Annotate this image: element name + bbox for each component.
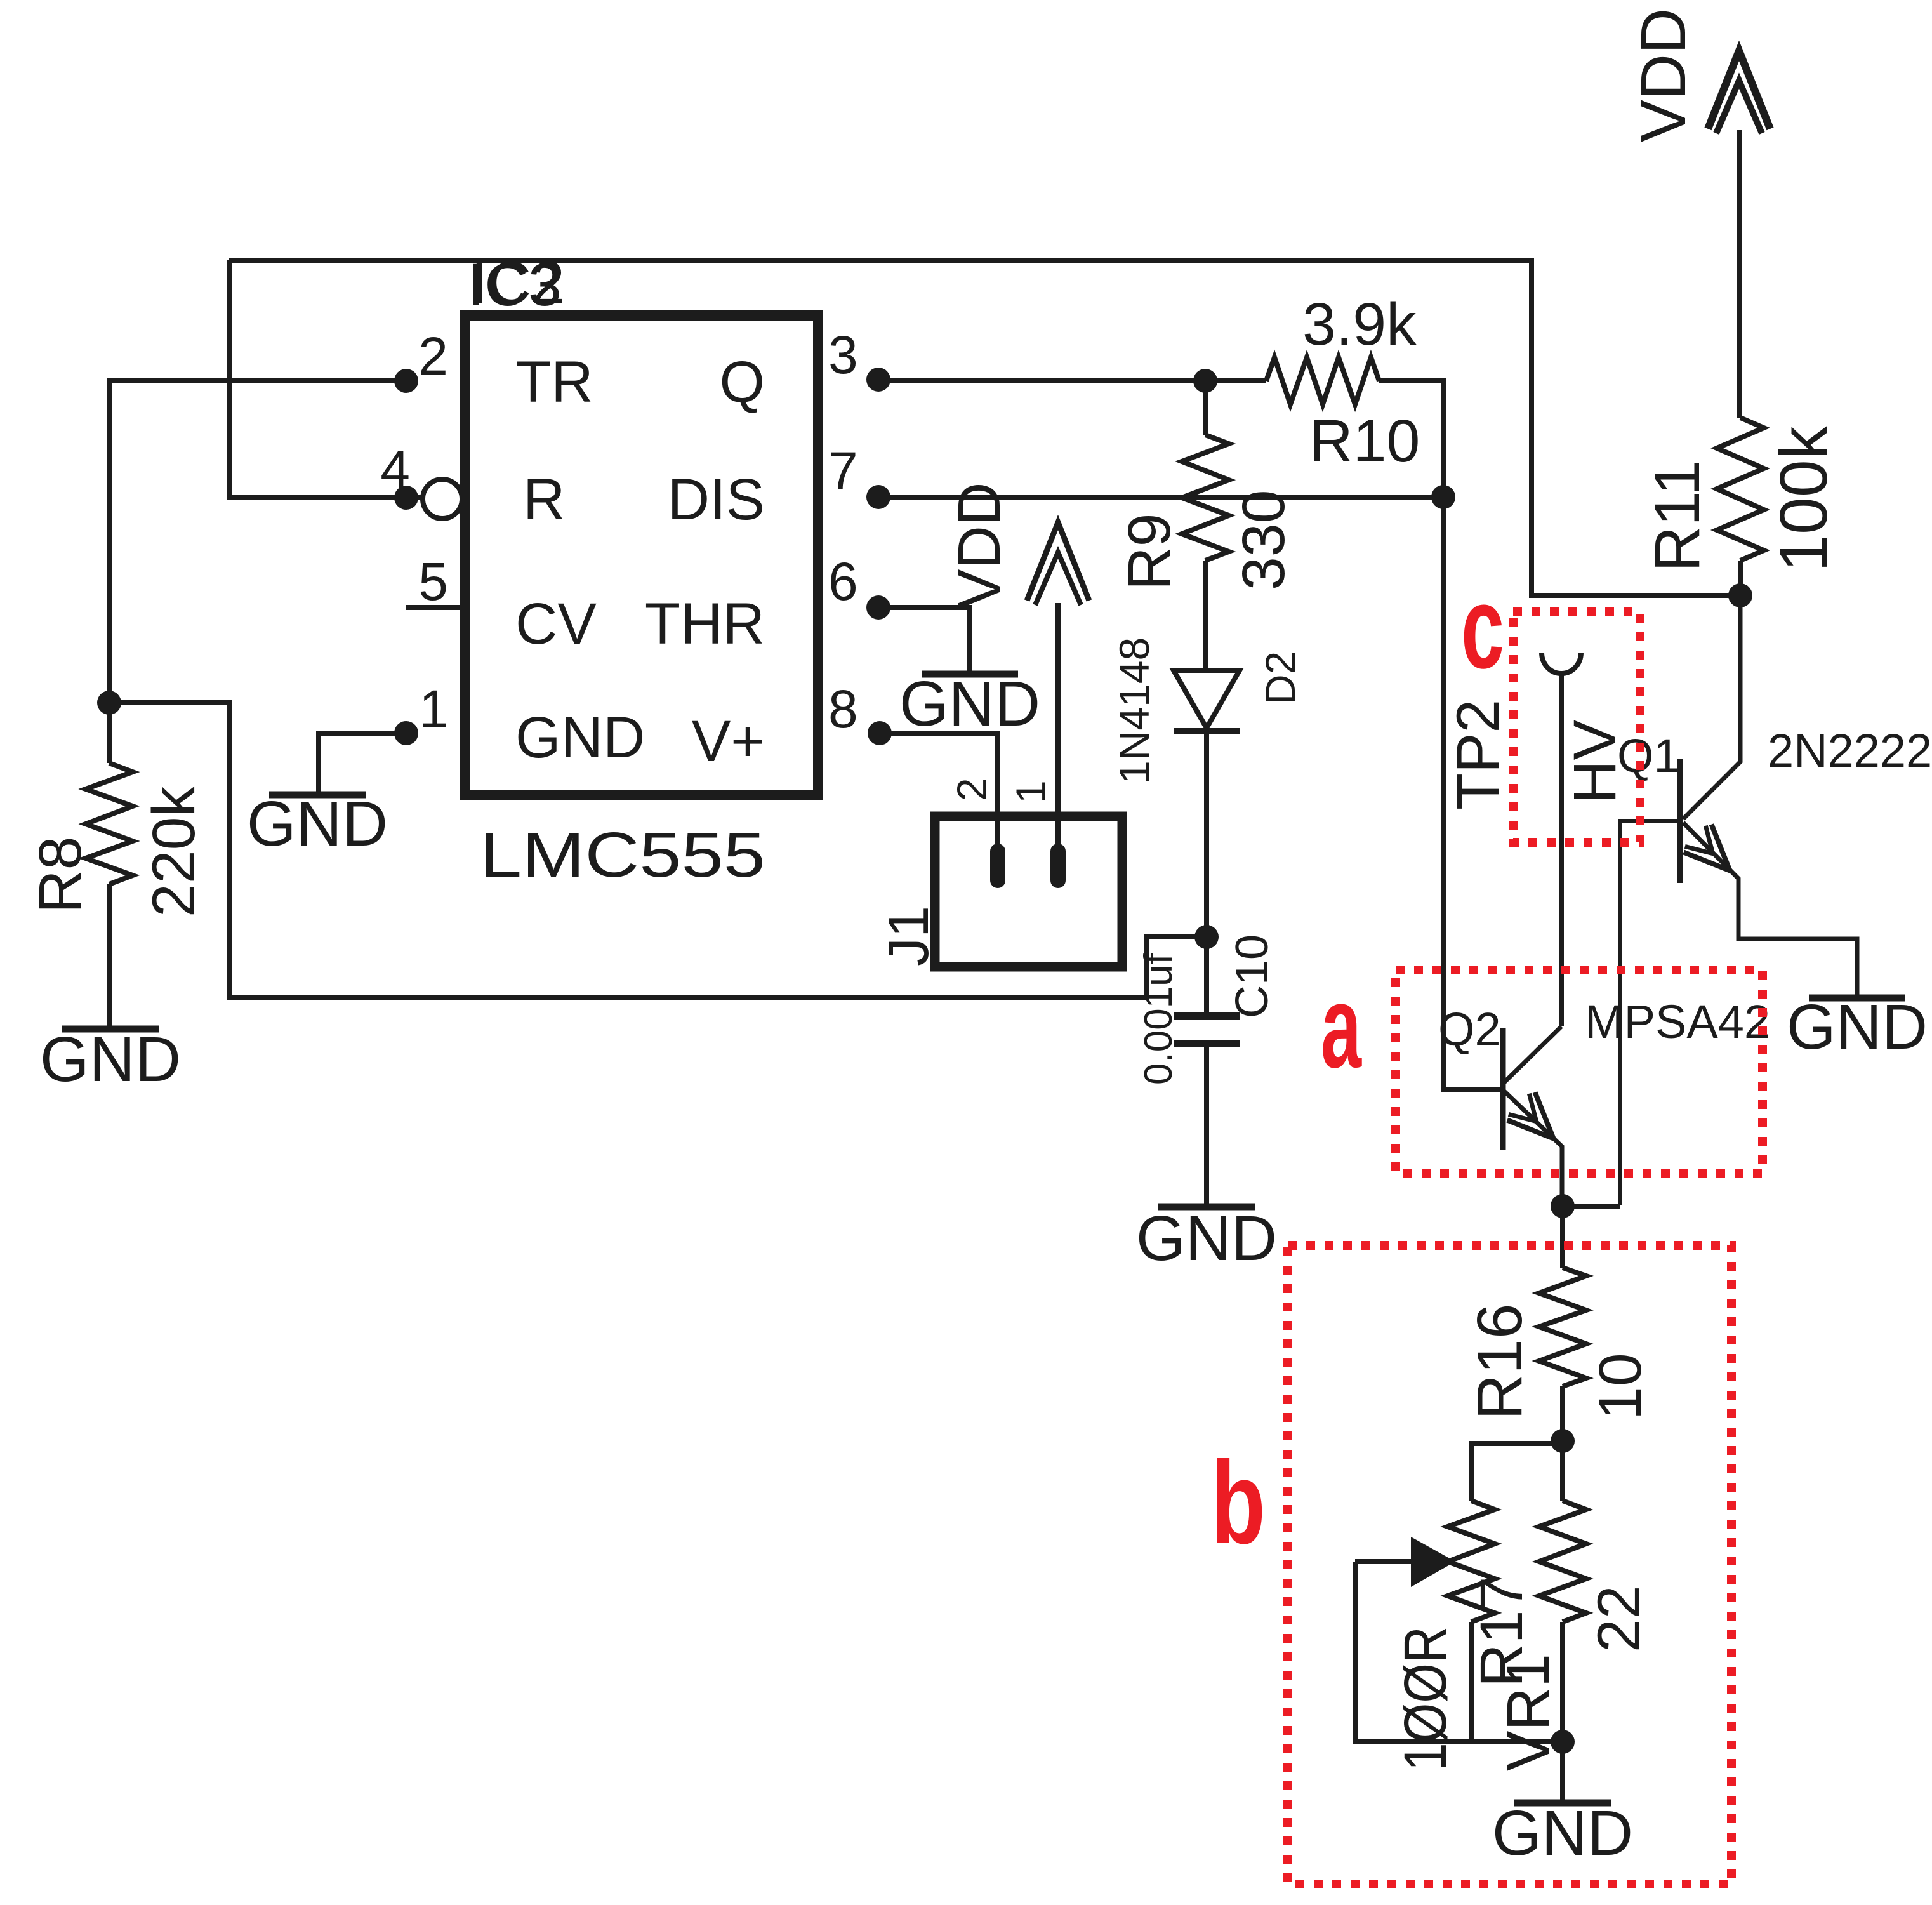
svg-text:LMC555: LMC555 (480, 820, 765, 891)
capacitor C10 0.001uf (1204, 937, 1209, 1013)
svg-text:R: R (523, 467, 565, 532)
transistor Q2 MPSA42 (1503, 1026, 1561, 1084)
VR1 wiper arrow (1355, 1559, 1411, 1564)
svg-text:220k: 220k (140, 786, 208, 917)
resistor R10 3.9k (1266, 357, 1379, 404)
wire pin6 THR to ground (877, 607, 970, 672)
svg-text:VDD: VDD (946, 482, 1013, 609)
node R11 bottom / Q1 collector (1728, 583, 1752, 607)
ground at Q1 emitter (1809, 995, 1905, 1002)
wire pin7 DIS (877, 495, 1443, 500)
ground below R8 (62, 1026, 159, 1033)
annotation box a (1396, 970, 1763, 1173)
svg-text:1: 1 (419, 679, 449, 739)
svg-text:TP2: TP2 (1445, 700, 1512, 810)
svg-text:7: 7 (828, 441, 858, 501)
svg-text:2N2222: 2N2222 (1768, 724, 1932, 777)
wire pin4 R reset (229, 260, 423, 498)
test point TP2 hook (1542, 653, 1581, 674)
svg-text:GND: GND (515, 705, 645, 770)
resistor R9 330 (1203, 381, 1208, 435)
resistor R17 22 (1560, 1441, 1565, 1501)
wire top net: pin4/R to R11 bottom node (229, 260, 1740, 595)
svg-text:IC2: IC2 (471, 249, 565, 317)
node bottom of divider (1551, 1730, 1575, 1754)
svg-text:V+: V+ (692, 709, 765, 774)
svg-text:0.001uf: 0.001uf (1137, 953, 1181, 1085)
IC IC2/IC3 LMC555 timer body (465, 315, 818, 795)
svg-text:c: c (1461, 562, 1504, 693)
wire pin3 Q output (877, 378, 1266, 383)
svg-text:Q2: Q2 (1438, 1003, 1501, 1056)
svg-text:3: 3 (828, 325, 858, 385)
svg-text:TR: TR (515, 350, 593, 415)
svg-text:b: b (1211, 1438, 1266, 1569)
svg-text:GND: GND (1136, 1203, 1277, 1274)
ground at pin6 (922, 671, 1018, 678)
svg-text:VR1: VR1 (1495, 1654, 1562, 1771)
resistor R16 10 (1560, 1206, 1565, 1268)
ground below C10 (1158, 1204, 1255, 1211)
resistor R11 100k (1717, 418, 1764, 561)
svg-text:C10: C10 (1227, 934, 1278, 1018)
svg-text:100k: 100k (1766, 425, 1841, 572)
svg-text:10: 10 (1587, 1353, 1654, 1420)
svg-text:GND: GND (40, 1024, 181, 1095)
wire R10 right to DIS node and down to Q2 base (1379, 381, 1503, 1089)
wire R8 node to C10/D2 node (bottom long wire) (109, 703, 1207, 998)
svg-text:GND: GND (899, 668, 1040, 740)
pin 4 bubble (423, 479, 462, 519)
svg-text:DIS: DIS (668, 467, 765, 532)
svg-text:6: 6 (828, 552, 858, 611)
annotation box b (1288, 1245, 1731, 1884)
trimmer VR1 100R (1471, 1444, 1563, 1501)
svg-text:R11: R11 (1642, 460, 1713, 572)
svg-text:R8: R8 (27, 837, 94, 913)
svg-text:R16: R16 (1464, 1304, 1535, 1420)
svg-text:2: 2 (418, 326, 448, 386)
svg-text:22: 22 (1585, 1585, 1653, 1652)
svg-text:CV: CV (515, 592, 597, 656)
svg-text:GND: GND (1787, 992, 1928, 1063)
svg-text:GND: GND (247, 788, 388, 860)
svg-text:8: 8 (828, 679, 858, 739)
svg-text:R9: R9 (1116, 514, 1183, 590)
transistor Q1 2N2222 (1683, 595, 1740, 819)
power VDD arrow at J1 (1027, 522, 1089, 601)
svg-text:Q: Q (719, 350, 765, 415)
svg-text:1: 1 (1007, 780, 1054, 804)
pin 5 stub (CV, n.c.) (406, 605, 465, 610)
svg-text:a: a (1321, 962, 1362, 1092)
svg-text:HV: HV (1561, 720, 1629, 804)
resistor R8 220k (107, 703, 112, 763)
svg-text:330: 330 (1230, 489, 1297, 590)
svg-text:MPSA42: MPSA42 (1585, 995, 1770, 1048)
power VDD arrow top right (1708, 51, 1770, 129)
wire pin2 TR to R8 top (109, 381, 406, 703)
svg-text:THR: THR (645, 592, 765, 656)
wire pin1 GND stub (319, 733, 406, 793)
ground near pin1 (269, 792, 366, 799)
svg-text:5: 5 (418, 552, 448, 611)
svg-text:3.9k: 3.9k (1302, 291, 1417, 358)
diode D2 1N4148 (1174, 670, 1240, 728)
svg-text:R10: R10 (1309, 408, 1420, 475)
annotation box c (1513, 612, 1640, 842)
node R16/R17/VR1 top (1551, 1429, 1575, 1453)
svg-text:J1: J1 (877, 906, 941, 966)
svg-text:2: 2 (948, 778, 995, 801)
svg-text:1ØØR: 1ØØR (1392, 1626, 1459, 1771)
svg-text:1N4148: 1N4148 (1111, 637, 1158, 784)
svg-text:D2: D2 (1257, 651, 1304, 705)
ground in box b (1514, 1800, 1611, 1807)
wire VDD to R11 (1737, 130, 1742, 418)
node C10/D2/TR net (1194, 925, 1219, 949)
svg-text:VDD: VDD (1628, 8, 1699, 142)
connector J1 (935, 816, 1122, 967)
node Q2 emitter / Q1 base / R16 (1551, 1194, 1575, 1218)
svg-text:GND: GND (1492, 1798, 1633, 1869)
wire pin8 V+ to J1 pin2 (878, 733, 998, 848)
